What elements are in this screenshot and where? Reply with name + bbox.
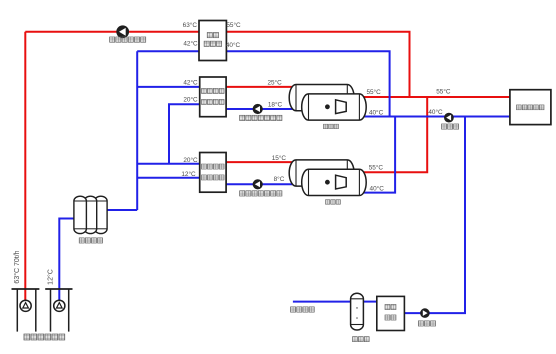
wire: 25C HX1 to heat pump 1 — [226, 86, 293, 88]
wire: 40C main return from community — [362, 116, 510, 118]
svg-text:42°C: 42°C — [183, 39, 198, 47]
wire: 55C heat pump 2 output riser — [362, 97, 427, 172]
svg-text:55°C: 55°C — [369, 163, 384, 171]
label 接自来水 (tap water) — [291, 307, 315, 312]
heat pump 1 back tank — [289, 85, 354, 111]
svg-text:15°C: 15°C — [272, 154, 287, 162]
svg-text:63°C 70t/h: 63°C 70t/h — [13, 250, 21, 283]
intermediate heat exchanger 1 box (热泵中间换热器1) — [200, 77, 226, 117]
label 拟建地热井组 — [24, 334, 65, 340]
wire: 15C HX2 to heat pump 2 — [226, 161, 293, 163]
wire: reinjection tank inlet — [107, 209, 137, 211]
heat pump 1 motor dot — [325, 104, 330, 109]
heat pump 1 front tank — [302, 94, 367, 120]
wire: 18C heat pump 1 to HX1 — [226, 108, 303, 110]
wire: 55C main supply to community — [361, 96, 510, 98]
svg-text:40°C: 40°C — [428, 108, 443, 116]
wire: 20C out of HX1 — [169, 104, 200, 164]
label 软化器 — [353, 337, 370, 342]
heat pump 2 compressor trapezoid — [336, 175, 347, 189]
svg-text:55°C: 55°C — [226, 21, 241, 29]
svg-text:40°C: 40°C — [370, 185, 385, 193]
svg-text:8°C: 8°C — [274, 175, 285, 183]
wire: 20C into HX2 — [137, 163, 200, 165]
heat pump 1 compressor trapezoid — [336, 100, 347, 114]
svg-text:42°C: 42°C — [183, 78, 198, 86]
water softener vessel (软化器) — [351, 293, 364, 330]
wire: 40C from primary HX right drop — [226, 51, 389, 116]
wire: softened water tank to make-up pump — [404, 312, 421, 314]
label 热泵1 — [323, 124, 338, 128]
svg-text:40°C: 40°C — [226, 41, 241, 49]
primary heat exchanger box (一级换热器) — [199, 21, 226, 61]
pump: intermediate circulation pump 1 (热泵中间循环泵) — [253, 104, 262, 113]
wire: 63C supply to primary HX — [25, 31, 199, 33]
pump: make-up water pump (补水泵) — [421, 309, 430, 318]
geothermal well group (拟建地热井组) — [12, 288, 40, 290]
svg-text:12°C: 12°C — [181, 170, 196, 178]
heat pump 2 back tank — [289, 160, 354, 186]
svg-text:63°C: 63°C — [183, 21, 198, 29]
heat pump 2 motor dot — [325, 180, 330, 185]
wire: 12C out of HX2 — [137, 177, 200, 179]
wire: 42C out of primary HX — [137, 50, 199, 52]
wire: 42C into HX1 — [137, 86, 200, 88]
pump: geothermal booster pump (地热水增压泵) — [117, 26, 129, 38]
wire: softener to softened water tank — [363, 301, 376, 303]
svg-text:20°C: 20°C — [183, 96, 198, 104]
well pump — [20, 300, 31, 311]
wire: geothermal 63C riser from well 1 — [24, 32, 26, 301]
well pump — [54, 300, 65, 311]
wire: make-up water riser — [429, 117, 465, 314]
softened water tank box (软化水箱) — [377, 296, 405, 330]
pump: intermediate circulation pump 2 (热泵中间循环泵) — [253, 180, 262, 189]
svg-text:25°C: 25°C — [267, 78, 282, 86]
wire: left blue manifold — [136, 51, 138, 210]
wire: reinjection tank outlet to well 2 — [59, 219, 74, 302]
heat pump 2 front tank — [302, 169, 367, 195]
reinjection facility tanks (回灌设施) — [95, 196, 108, 233]
svg-text:12°C: 12°C — [47, 269, 55, 285]
svg-text:18°C: 18°C — [268, 100, 283, 108]
wire: 40C heat pump 2 return riser — [364, 117, 396, 193]
svg-text:55°C: 55°C — [366, 88, 381, 96]
pump: network circulation pump (循环泵) — [445, 113, 454, 122]
svg-text:55°C: 55°C — [436, 87, 451, 95]
svg-text:40°C: 40°C — [369, 108, 384, 116]
wire: tap water inlet — [293, 301, 351, 303]
svg-text:20°C: 20°C — [183, 156, 198, 164]
wire: 8C heat pump 2 to HX2 — [226, 183, 303, 185]
label 热泵2 — [325, 200, 340, 204]
wire: 55C from primary HX to right drop — [226, 32, 409, 97]
community load box (向阳里小区) — [510, 90, 551, 125]
label 回灌设施 — [79, 238, 102, 243]
intermediate heat exchanger 2 box (热泵中间换热器2) — [200, 153, 226, 193]
